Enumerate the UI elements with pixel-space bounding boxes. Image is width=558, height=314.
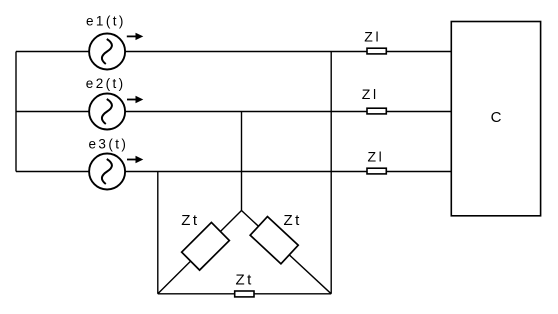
wire: phase 1 from bus to source e1	[16, 51, 89, 53]
wire: phase 2 from bus to source e2	[16, 111, 89, 113]
resistor Zl phase 3	[367, 168, 386, 174]
voltage source e2 sine squiggle	[102, 99, 112, 124]
resistor Zl phase 1	[367, 48, 386, 54]
current arrow phase 2	[127, 96, 143, 103]
svg-text:e1(t): e1(t)	[86, 13, 126, 28]
svg-text:Zl: Zl	[362, 86, 379, 102]
voltage source e3 sine squiggle	[102, 159, 112, 184]
voltage source e2 circle	[89, 94, 125, 130]
wire: phase 3 from bus to source e3	[16, 171, 89, 173]
svg-text:Zl: Zl	[368, 149, 385, 165]
resistor Zt left diagonal	[182, 222, 230, 270]
resistor Zt bottom	[235, 291, 254, 297]
wire: drop from phase 3 to delta bottom-left corner	[157, 172, 159, 294]
voltage source e3 circle	[89, 154, 125, 190]
resistor Zl phase 2	[367, 108, 386, 114]
resistor Zt right diagonal	[250, 217, 298, 264]
wire: left vertical bus	[15, 52, 17, 172]
wire: drop from phase 2 to delta apex node	[241, 112, 243, 211]
svg-text:Zt: Zt	[181, 212, 199, 229]
wire: phase 1 from source e1 to box C	[125, 51, 451, 53]
wire: delta bottom horizontal	[158, 293, 331, 295]
wire: phase 3 from source e3 to box C	[125, 171, 451, 173]
svg-text:Zt: Zt	[236, 271, 254, 288]
voltage source e1 circle	[89, 34, 125, 70]
svg-text:Zt: Zt	[284, 212, 302, 229]
svg-text:C: C	[491, 109, 502, 126]
svg-text:e2(t): e2(t)	[86, 76, 126, 91]
current arrow phase 3	[127, 156, 143, 163]
voltage source e1 sine squiggle	[102, 39, 112, 64]
wire: delta right diagonal (apex to bottom-right)	[242, 211, 332, 294]
wire: delta left diagonal (apex to bottom-left)	[158, 211, 242, 294]
svg-text:Zl: Zl	[364, 28, 381, 44]
load box C	[451, 22, 540, 216]
current arrow phase 1	[127, 33, 144, 40]
wire: phase 2 from source e2 to box C	[125, 111, 451, 113]
wire: drop from phase 1 to delta bottom-right corner	[330, 52, 332, 294]
svg-text:e3(t): e3(t)	[89, 136, 129, 151]
